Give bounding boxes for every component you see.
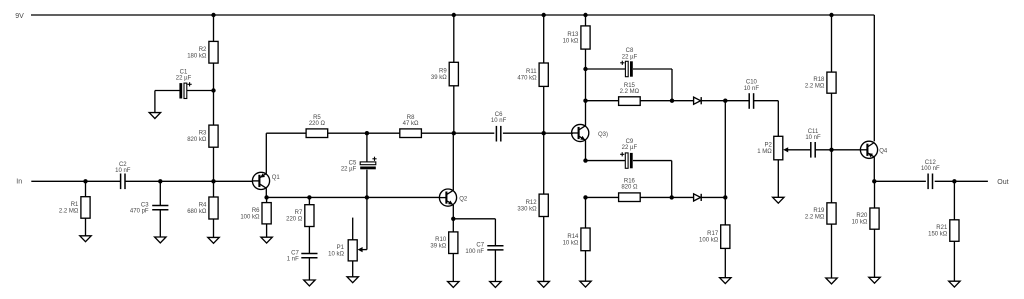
svg-text:C7: C7 bbox=[476, 243, 484, 249]
wire D1 to node bbox=[702, 100, 726, 102]
capacitor C1 bbox=[155, 70, 214, 113]
resistor R14 bbox=[563, 228, 591, 281]
ground under C3 bbox=[155, 237, 166, 243]
svg-text:R19: R19 bbox=[813, 208, 825, 214]
capacitor C11 bbox=[805, 129, 831, 158]
svg-text:Q3): Q3) bbox=[598, 132, 608, 138]
resistor R21 bbox=[928, 181, 959, 281]
junction node C8/R15 bbox=[670, 99, 674, 103]
svg-text:R6: R6 bbox=[252, 208, 260, 214]
svg-text:1 MΩ: 1 MΩ bbox=[757, 149, 772, 155]
svg-text:680 kΩ: 680 kΩ bbox=[187, 209, 207, 215]
svg-text:R10: R10 bbox=[435, 237, 447, 243]
junction node R11/Q3 base bbox=[542, 131, 546, 135]
ground under R20 bbox=[869, 277, 880, 283]
wire R15 row bbox=[586, 100, 694, 102]
svg-text:39 kΩ: 39 kΩ bbox=[430, 244, 446, 250]
svg-text:R18: R18 bbox=[813, 77, 825, 83]
wire R13 to Q3 collector bbox=[585, 69, 587, 126]
transistor Q4 bbox=[860, 141, 877, 181]
svg-text:100 nF: 100 nF bbox=[465, 249, 484, 255]
svg-text:220 Ω: 220 Ω bbox=[286, 217, 303, 223]
svg-text:22 µF: 22 µF bbox=[622, 145, 638, 151]
junction on rail at R2 bbox=[211, 13, 215, 17]
wire rail to R2 bbox=[213, 15, 215, 41]
junction node Q2 collector/R9 bbox=[452, 131, 456, 135]
wire C1 node to R3 bbox=[213, 91, 215, 126]
junction node Q4 emitter/out bbox=[872, 179, 876, 183]
resistor R8 bbox=[400, 115, 422, 138]
svg-text:P2: P2 bbox=[764, 143, 772, 149]
diode D2 bbox=[694, 194, 702, 201]
svg-text:10 kΩ: 10 kΩ bbox=[563, 39, 579, 45]
svg-text:10 kΩ: 10 kΩ bbox=[328, 251, 344, 257]
resistor R16 bbox=[619, 178, 641, 201]
transistor Q1 bbox=[252, 133, 269, 197]
resistor R19 bbox=[805, 150, 836, 278]
resistor R7 bbox=[286, 197, 314, 253]
capacitor C5 bbox=[341, 133, 377, 197]
junction node Q2 emitter bbox=[451, 217, 455, 221]
svg-text:C11: C11 bbox=[808, 129, 819, 135]
svg-text:2.2 MΩ: 2.2 MΩ bbox=[620, 89, 640, 95]
junction node R16 branch bbox=[583, 195, 587, 199]
capacitor C10 bbox=[725, 79, 778, 136]
ground under R1 bbox=[80, 236, 91, 242]
ground under R4 bbox=[208, 237, 219, 243]
resistor R12 bbox=[517, 133, 548, 281]
svg-text:470 pF: 470 pF bbox=[130, 209, 149, 215]
svg-text:180 kΩ: 180 kΩ bbox=[187, 53, 207, 59]
svg-text:2.2 MΩ: 2.2 MΩ bbox=[59, 208, 79, 214]
label Q3 bbox=[598, 132, 608, 138]
ground under R10 bbox=[448, 282, 459, 288]
wire Q3 emitter to R14 bbox=[585, 197, 587, 228]
svg-text:Q1: Q1 bbox=[272, 175, 281, 181]
svg-text:P1: P1 bbox=[337, 245, 345, 251]
svg-text:100 kΩ: 100 kΩ bbox=[699, 238, 719, 244]
wire Q1 collector row bbox=[266, 196, 439, 198]
junction node C12/R21 bbox=[952, 179, 956, 183]
potentiometer P1 bbox=[328, 218, 367, 277]
junction node C9/R16 bbox=[670, 195, 674, 199]
svg-text:R16: R16 bbox=[624, 178, 636, 184]
svg-text:R12: R12 bbox=[526, 200, 538, 206]
net label Out bbox=[997, 179, 1008, 186]
junction node C5/R5/R8 bbox=[365, 131, 369, 135]
junction on rail at R9 bbox=[452, 13, 456, 17]
capacitor C12 bbox=[921, 160, 940, 189]
resistor R10 bbox=[430, 219, 458, 282]
junction node C8 branch bbox=[583, 67, 587, 71]
svg-text:22 µF: 22 µF bbox=[622, 54, 638, 60]
label Q4 bbox=[879, 148, 888, 154]
resistor R20 bbox=[852, 181, 880, 277]
svg-text:820 Ω: 820 Ω bbox=[621, 184, 638, 190]
capacitor C7 bbox=[287, 250, 318, 280]
svg-text:R14: R14 bbox=[567, 234, 579, 240]
junction on rail at R18 bbox=[829, 13, 833, 17]
ground under C7 (100 nF) bbox=[490, 282, 501, 288]
svg-text:22 µF: 22 µF bbox=[176, 76, 192, 82]
svg-text:R13: R13 bbox=[567, 32, 579, 38]
resistor R4 bbox=[187, 181, 218, 237]
capacitor C9 bbox=[586, 139, 672, 197]
resistor R5 bbox=[306, 115, 328, 138]
ground under R12 bbox=[538, 281, 549, 287]
ground under P1 bbox=[347, 277, 358, 283]
svg-text:10 nF: 10 nF bbox=[805, 135, 821, 141]
svg-text:R11: R11 bbox=[526, 69, 537, 75]
net label 9V bbox=[15, 13, 24, 20]
capacitor C3 bbox=[130, 181, 168, 237]
capacitor C8 bbox=[586, 48, 673, 100]
wire output row bbox=[874, 180, 988, 182]
svg-text:R3: R3 bbox=[199, 131, 207, 137]
label Q1 bbox=[272, 175, 281, 181]
net label In bbox=[16, 179, 22, 186]
junction node R6/Q1 bbox=[264, 195, 268, 199]
svg-text:R5: R5 bbox=[313, 115, 321, 121]
ground under R19 bbox=[826, 278, 837, 284]
svg-text:220 Ω: 220 Ω bbox=[309, 121, 326, 127]
svg-text:10 kΩ: 10 kΩ bbox=[852, 220, 868, 226]
junction node C9 branch bbox=[583, 158, 587, 162]
wire D2 to node bbox=[702, 196, 726, 198]
resistor R11 bbox=[517, 15, 548, 133]
svg-text:9V: 9V bbox=[15, 13, 24, 20]
junction node D2/R17 bbox=[723, 195, 727, 199]
svg-text:R1: R1 bbox=[71, 202, 79, 208]
junction on rail at R11 bbox=[542, 13, 546, 17]
svg-text:Out: Out bbox=[997, 179, 1008, 186]
junction node R4/input bbox=[211, 179, 215, 183]
ground under R14 bbox=[580, 281, 591, 287]
label Q2 bbox=[459, 196, 468, 202]
junction node R1/input bbox=[83, 179, 87, 183]
transistor Q2 bbox=[439, 133, 456, 219]
resistor R1 bbox=[59, 181, 90, 236]
capacitor C6 bbox=[491, 112, 507, 141]
svg-text:R2: R2 bbox=[199, 47, 207, 53]
svg-text:R15: R15 bbox=[624, 83, 636, 89]
svg-text:47 kΩ: 47 kΩ bbox=[403, 121, 419, 127]
junction node C1/R2/R3 bbox=[211, 88, 215, 92]
svg-text:R21: R21 bbox=[936, 225, 948, 231]
transistor Q3 bbox=[572, 124, 589, 160]
resistor R13 bbox=[563, 15, 591, 69]
svg-text:C7: C7 bbox=[291, 250, 299, 256]
ground under R17 bbox=[720, 278, 731, 284]
svg-text:10 nF: 10 nF bbox=[115, 168, 131, 174]
svg-text:10 nF: 10 nF bbox=[744, 86, 760, 92]
svg-text:1 nF: 1 nF bbox=[287, 257, 299, 263]
svg-text:C9: C9 bbox=[626, 139, 634, 145]
resistor R3 bbox=[187, 125, 218, 181]
svg-text:R17: R17 bbox=[707, 231, 719, 237]
svg-text:C3: C3 bbox=[141, 202, 149, 208]
junction node R18/R19/Q4 base bbox=[829, 148, 833, 152]
junction node D1/C10/R17 bbox=[723, 99, 727, 103]
junction node R15 branch bbox=[583, 99, 587, 103]
wire diode node column bbox=[724, 101, 726, 225]
ground under R21 bbox=[949, 281, 960, 287]
svg-text:820 kΩ: 820 kΩ bbox=[187, 137, 207, 143]
junction node R7 bbox=[307, 195, 311, 199]
svg-text:330 kΩ: 330 kΩ bbox=[517, 206, 537, 212]
potentiometer P2 bbox=[757, 136, 810, 197]
svg-text:2.2 MΩ: 2.2 MΩ bbox=[805, 84, 825, 90]
svg-text:C10: C10 bbox=[746, 79, 758, 85]
svg-text:C8: C8 bbox=[626, 48, 634, 54]
resistor R18 bbox=[805, 15, 836, 150]
ground under C1 bbox=[149, 113, 160, 119]
svg-text:R20: R20 bbox=[856, 213, 868, 219]
resistor R17 bbox=[699, 225, 730, 278]
resistor R9 bbox=[431, 15, 459, 133]
svg-text:39 kΩ: 39 kΩ bbox=[431, 75, 447, 81]
wire R16 row bbox=[586, 196, 694, 198]
svg-text:Q4: Q4 bbox=[879, 148, 888, 154]
junction node C3/input bbox=[158, 179, 162, 183]
svg-text:100 nF: 100 nF bbox=[921, 166, 940, 172]
ground under C7 bbox=[304, 280, 315, 286]
ground under R6 bbox=[261, 237, 272, 243]
svg-text:2.2 MΩ: 2.2 MΩ bbox=[805, 214, 825, 220]
resistor R2 bbox=[187, 41, 218, 90]
resistor R15 bbox=[619, 83, 641, 105]
svg-text:C2: C2 bbox=[119, 162, 127, 168]
svg-text:100 kΩ: 100 kΩ bbox=[240, 214, 260, 220]
junction on rail at R13 bbox=[583, 13, 587, 17]
svg-text:R8: R8 bbox=[407, 115, 415, 121]
diode D1 bbox=[694, 97, 702, 104]
ground under P2 bbox=[773, 197, 784, 203]
svg-text:470 kΩ: 470 kΩ bbox=[517, 76, 537, 82]
junction node C5/P1 bbox=[365, 195, 369, 199]
capacitor C2 bbox=[115, 162, 131, 189]
wire input row bbox=[31, 180, 252, 182]
svg-text:In: In bbox=[16, 179, 22, 186]
capacitor C7 (100 nF) bbox=[453, 219, 503, 282]
svg-text:R7: R7 bbox=[295, 210, 303, 216]
wire R5/R8 row bbox=[266, 132, 573, 134]
svg-text:R4: R4 bbox=[199, 203, 207, 209]
svg-text:C1: C1 bbox=[180, 70, 188, 76]
wire C11 to Q4 base bbox=[832, 149, 861, 151]
wire 9V rail bbox=[31, 15, 874, 141]
svg-text:C5: C5 bbox=[349, 160, 357, 166]
svg-text:150 kΩ: 150 kΩ bbox=[928, 232, 948, 238]
resistor R6 bbox=[240, 197, 271, 237]
wire C5 node to P1 wiper bbox=[366, 197, 368, 249]
svg-text:22 µF: 22 µF bbox=[341, 167, 357, 173]
svg-text:10 kΩ: 10 kΩ bbox=[563, 240, 579, 246]
svg-text:Q2: Q2 bbox=[459, 196, 468, 202]
svg-text:10 nF: 10 nF bbox=[491, 118, 507, 124]
svg-text:R9: R9 bbox=[439, 69, 447, 75]
